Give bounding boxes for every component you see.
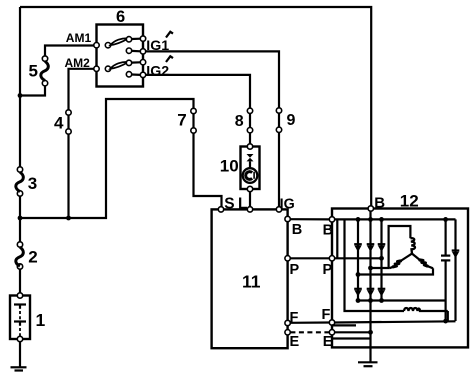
- svg-text:1: 1: [36, 310, 46, 330]
- wire F line internal: [335, 321, 456, 322]
- terminal B alternator left: [329, 217, 334, 222]
- wire left main vertical: [19, 7, 21, 296]
- wire IG2 to lamp via connector 8: [146, 75, 250, 144]
- rectifier column 1: [357, 219, 359, 300]
- fusible link 5: [41, 56, 49, 86]
- svg-text:IG: IG: [280, 197, 295, 213]
- rectifier column 2 (B feed): [369, 211, 371, 300]
- svg-text:E: E: [290, 334, 300, 350]
- battery 1: [10, 293, 30, 342]
- svg-text:5: 5: [29, 61, 38, 80]
- svg-text:P: P: [290, 262, 300, 278]
- wire E stub second line: [332, 337, 371, 339]
- ignition switch 6: [97, 25, 144, 87]
- wire E line internal: [335, 331, 371, 333]
- svg-text:2: 2: [28, 247, 37, 266]
- svg-text:4: 4: [54, 114, 64, 133]
- terminal S: [218, 207, 223, 212]
- wire E regulator to alternator dashed: [290, 331, 329, 333]
- node junction AM1 branch: [18, 93, 23, 98]
- terminal E alternator left: [329, 330, 334, 335]
- diode D3 top column3: [378, 244, 386, 252]
- wire F regulator to alternator: [290, 321, 329, 323]
- connector 4: [66, 110, 71, 134]
- wire phase tap A: [371, 226, 411, 268]
- node tap B: [356, 272, 361, 277]
- diode D6 bottom column3: [378, 289, 386, 297]
- fusible link 2: [16, 242, 24, 269]
- svg-text:B: B: [323, 223, 333, 239]
- svg-text:B: B: [374, 195, 385, 212]
- node F field junction: [443, 319, 448, 324]
- node P tap: [379, 256, 384, 261]
- node junction bottom distribution: [18, 216, 23, 221]
- diode D5 bottom column2: [367, 289, 375, 297]
- stator winding right arm: [412, 254, 433, 269]
- alternator 12 box: [332, 209, 468, 348]
- node E ground junction: [368, 330, 373, 335]
- svg-text:F: F: [322, 307, 331, 323]
- svg-text:IG2: IG2: [146, 63, 169, 79]
- wire E bus: [358, 299, 445, 301]
- rectifier column 3: [380, 219, 382, 300]
- field coil rotor: [404, 308, 448, 321]
- capacitor C1: [441, 219, 450, 321]
- wire top loop from battery feed to alternator B: [20, 7, 371, 206]
- terminal P alternator left: [329, 256, 334, 261]
- svg-text:B: B: [292, 222, 302, 238]
- connector 8: [247, 108, 252, 133]
- terminal F regulator: [285, 320, 290, 325]
- terminal IG: [276, 207, 281, 212]
- svg-text:10: 10: [220, 156, 239, 175]
- wire IG1 to regulator IG via connector 9: [146, 51, 279, 206]
- node tap A: [368, 266, 373, 271]
- svg-text:6: 6: [116, 8, 125, 26]
- svg-text:8: 8: [235, 113, 244, 130]
- svg-text:3: 3: [28, 174, 37, 193]
- wire AM1 branch: [20, 46, 94, 96]
- wire phase tap B to stator right winding: [358, 268, 433, 274]
- ground alternator: [358, 362, 378, 366]
- svg-text:P: P: [323, 262, 333, 278]
- svg-text:7: 7: [177, 111, 186, 130]
- connector 7: [191, 108, 196, 133]
- connector 9: [276, 108, 281, 133]
- terminal E regulator: [285, 330, 290, 335]
- wire riser field feed: [345, 219, 405, 311]
- wire P line to phase tap: [335, 257, 382, 259]
- wire ground stem alternator: [369, 301, 371, 363]
- terminal L: [247, 207, 252, 212]
- svg-text:L: L: [238, 196, 247, 213]
- diode D2 top column2: [367, 244, 375, 252]
- svg-text:AM1: AM1: [66, 31, 92, 45]
- stator winding left arm: [389, 254, 412, 269]
- switch row AM2 contacts: [94, 60, 146, 78]
- wire mid loop to S via connector 7: [20, 99, 222, 218]
- diode D4 bottom column1: [354, 289, 362, 297]
- wire internal B bus: [335, 218, 456, 220]
- terminal B alternator top: [368, 206, 373, 211]
- svg-text:12: 12: [400, 191, 419, 210]
- stator winding top coil: [410, 238, 415, 253]
- charge lamp 10: [241, 144, 260, 192]
- wire F stub second line: [332, 324, 356, 326]
- node dots on B bus: [356, 217, 361, 222]
- label IG1: [146, 32, 173, 54]
- fusible link 3: [16, 167, 24, 196]
- svg-text:E: E: [323, 334, 333, 350]
- node dots on E bus: [356, 298, 361, 303]
- svg-text:11: 11: [242, 271, 261, 291]
- svg-text:S: S: [224, 196, 234, 213]
- wire riser P aux: [336, 219, 338, 258]
- wire B regulator to alternator: [290, 218, 329, 220]
- terminal F alternator left: [329, 320, 334, 325]
- voltage regulator 11: [212, 209, 288, 348]
- svg-text:9: 9: [287, 112, 296, 129]
- diode D7 right column: [452, 219, 460, 321]
- wire AM2 branch with connector 4 run: [69, 69, 94, 218]
- switch row AM1 contacts: [94, 36, 146, 54]
- label IG2: [146, 56, 173, 79]
- wire P regulator to alternator: [290, 257, 329, 259]
- diode D1 top column1: [354, 244, 362, 252]
- ground battery: [11, 367, 27, 370]
- terminal B regulator: [285, 216, 290, 221]
- wire lamp to L terminal: [249, 192, 251, 207]
- terminal P regulator: [285, 256, 290, 261]
- wire battery to ground: [19, 342, 21, 368]
